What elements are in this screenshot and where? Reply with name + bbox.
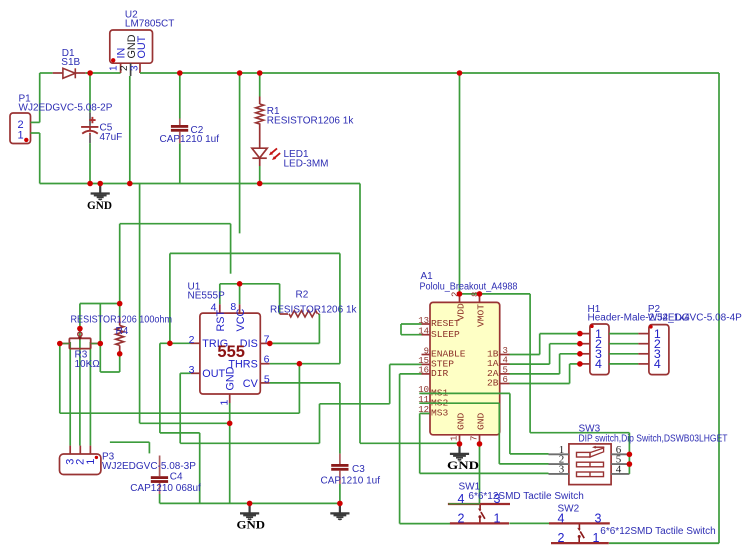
svg-text:9: 9 xyxy=(424,346,429,356)
svg-text:6*6*12SMD Tactile Switch: 6*6*12SMD Tactile Switch xyxy=(600,526,715,537)
svg-text:4: 4 xyxy=(595,357,602,371)
svg-text:MS3: MS3 xyxy=(431,408,449,419)
svg-text:1: 1 xyxy=(17,130,23,142)
svg-text:GND: GND xyxy=(447,458,479,472)
svg-text:5: 5 xyxy=(503,365,508,375)
svg-text:VDD: VDD xyxy=(455,303,466,321)
svg-text:VCC: VCC xyxy=(235,309,247,332)
svg-text:3: 3 xyxy=(189,364,195,376)
svg-text:LED-3MM: LED-3MM xyxy=(284,158,329,169)
svg-text:6: 6 xyxy=(264,354,270,366)
svg-text:WJ2EDGVC-5.08-4P: WJ2EDGVC-5.08-4P xyxy=(648,313,742,324)
svg-text:4: 4 xyxy=(503,356,508,366)
svg-text:1: 1 xyxy=(109,65,120,71)
svg-text:8: 8 xyxy=(230,301,236,313)
svg-text:4: 4 xyxy=(558,511,565,525)
svg-text:3: 3 xyxy=(595,511,602,525)
svg-text:4: 4 xyxy=(211,302,217,314)
svg-text:4: 4 xyxy=(458,492,465,506)
svg-text:2: 2 xyxy=(458,511,465,525)
svg-text:CAP1210 068uf: CAP1210 068uf xyxy=(130,483,201,494)
svg-text:3: 3 xyxy=(494,492,501,506)
svg-text:6: 6 xyxy=(503,375,508,385)
svg-text:GND: GND xyxy=(225,366,237,390)
svg-text:16: 16 xyxy=(418,366,429,376)
svg-text:555: 555 xyxy=(217,343,245,361)
svg-text:7: 7 xyxy=(470,436,480,441)
svg-text:WJ2EDGVC-5.08-2P: WJ2EDGVC-5.08-2P xyxy=(19,103,113,114)
svg-text:Pololu_Breakout_A4988: Pololu_Breakout_A4988 xyxy=(420,282,518,293)
svg-text:13: 13 xyxy=(418,316,429,326)
svg-text:4: 4 xyxy=(616,464,622,476)
svg-text:VMOT: VMOT xyxy=(475,304,486,327)
svg-text:RST: RST xyxy=(215,310,227,332)
svg-text:15: 15 xyxy=(418,356,429,366)
svg-text:2: 2 xyxy=(189,334,195,346)
svg-text:GND: GND xyxy=(87,198,112,212)
svg-text:4: 4 xyxy=(654,357,661,371)
svg-text:12: 12 xyxy=(418,405,429,415)
svg-text:R2: R2 xyxy=(296,290,309,301)
svg-text:OUT: OUT xyxy=(136,35,148,58)
svg-text:NE555P: NE555P xyxy=(188,291,226,302)
svg-text:GND: GND xyxy=(455,412,466,430)
svg-text:WJ2EDGVC-5.08-3P: WJ2EDGVC-5.08-3P xyxy=(102,461,196,472)
svg-text:A1: A1 xyxy=(421,271,434,282)
svg-text:3: 3 xyxy=(130,65,141,71)
svg-text:GND: GND xyxy=(237,517,266,531)
svg-text:1: 1 xyxy=(219,400,231,406)
svg-text:1: 1 xyxy=(593,531,600,545)
svg-text:RESISTOR1206 100ohm: RESISTOR1206 100ohm xyxy=(71,315,173,326)
svg-text:14: 14 xyxy=(418,327,429,337)
svg-text:OUT: OUT xyxy=(202,368,225,380)
svg-text:DIR: DIR xyxy=(431,368,449,379)
svg-text:3: 3 xyxy=(503,346,508,356)
svg-text:2: 2 xyxy=(558,531,565,545)
svg-text:DIP switch,Dip Switch,DSWB03LH: DIP switch,Dip Switch,DSWB03LHGET xyxy=(579,434,728,445)
svg-text:RESISTOR1206 1k: RESISTOR1206 1k xyxy=(270,305,358,316)
svg-text:C4: C4 xyxy=(170,471,183,482)
svg-text:CAP1210 1uf: CAP1210 1uf xyxy=(160,134,220,145)
svg-text:6*6*12SMD Tactile Switch: 6*6*12SMD Tactile Switch xyxy=(468,491,583,502)
svg-text:LM7805CT: LM7805CT xyxy=(125,19,174,30)
svg-text:2B: 2B xyxy=(487,378,499,389)
svg-text:CAP1210 1uf: CAP1210 1uf xyxy=(321,475,381,486)
svg-text:C3: C3 xyxy=(352,464,365,475)
svg-text:1: 1 xyxy=(450,436,460,441)
svg-text:47uF: 47uF xyxy=(100,132,123,143)
svg-text:10: 10 xyxy=(418,385,429,395)
svg-text:5: 5 xyxy=(264,373,270,385)
svg-text:10KΩ: 10KΩ xyxy=(75,359,101,370)
svg-text:GND: GND xyxy=(475,412,486,430)
svg-text:3: 3 xyxy=(559,464,565,476)
svg-text:1: 1 xyxy=(494,511,501,525)
svg-text:CV: CV xyxy=(243,378,259,390)
svg-text:RESISTOR1206 1k: RESISTOR1206 1k xyxy=(267,116,355,127)
svg-text:1: 1 xyxy=(85,459,97,465)
svg-text:S1B: S1B xyxy=(61,57,80,68)
svg-text:11: 11 xyxy=(418,395,429,405)
svg-text:R4: R4 xyxy=(116,326,129,337)
svg-text:SLEEP: SLEEP xyxy=(431,329,460,340)
